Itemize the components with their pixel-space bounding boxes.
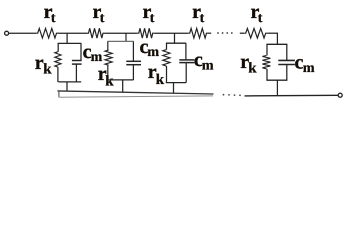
- svg-text:m: m: [202, 59, 214, 74]
- wire: [132, 65, 134, 80]
- svg-text:k: k: [43, 61, 52, 77]
- wire: [185, 63, 187, 83]
- label c_m of Cm3: [194, 49, 214, 74]
- label r_t of R1: [44, 1, 56, 26]
- ellipsis dots (bottom rail): [223, 94, 241, 96]
- capacitor Cm4 (c_m): [278, 60, 295, 64]
- wire: [75, 64, 77, 82]
- wire: [105, 32, 138, 34]
- svg-text:k: k: [105, 73, 114, 89]
- wire: [266, 43, 287, 45]
- wire: [267, 32, 278, 34]
- svg-text:k: k: [248, 61, 257, 77]
- resistor R5 (r_t): [244, 28, 267, 38]
- wire: [166, 42, 186, 44]
- wire: [107, 40, 133, 42]
- wire node E drop: [276, 33, 278, 44]
- label r_t of R3: [143, 1, 155, 26]
- wire: [266, 79, 287, 81]
- wire: [9, 32, 37, 34]
- wire: [208, 32, 211, 34]
- wire: [57, 67, 59, 82]
- wire: [58, 91, 60, 97]
- svg-text:m: m: [303, 61, 315, 76]
- svg-text:t: t: [200, 11, 205, 26]
- wire: [80, 43, 82, 60]
- output terminal T2: [338, 93, 342, 97]
- wire: [276, 80, 278, 96]
- svg-text:t: t: [258, 11, 263, 26]
- wire: [240, 32, 244, 34]
- label r_k of Rk3: [148, 61, 165, 88]
- svg-text:t: t: [100, 11, 105, 26]
- label c_m of Cm1: [83, 41, 103, 65]
- wire: [166, 82, 186, 84]
- wire: [245, 94, 339, 97]
- svg-text:t: t: [150, 11, 155, 26]
- wire: [266, 44, 268, 55]
- resistor Rk2 (r_k): [105, 50, 112, 65]
- wire: [286, 65, 288, 81]
- wire: [166, 66, 168, 83]
- wire lower return line: [59, 96, 213, 97]
- wire: [108, 79, 134, 81]
- wire: [66, 82, 68, 91]
- resistor Rk3 (r_k): [163, 50, 170, 67]
- wire: [173, 83, 175, 94]
- wire: [107, 65, 109, 80]
- wire: [154, 32, 188, 34]
- label r_t of R4: [192, 1, 205, 26]
- resistor Rk4 (r_k): [262, 56, 270, 69]
- capacitor Cm2 (c_m): [126, 61, 141, 64]
- label r_t of R2: [93, 1, 105, 26]
- wire: [166, 43, 168, 49]
- resistor R3 (r_t): [137, 28, 154, 38]
- resistor R2 (r_t): [87, 28, 105, 38]
- wire node C drop: [174, 33, 176, 43]
- wire: [185, 43, 187, 60]
- wire: [132, 41, 134, 61]
- label r_k of Rk1: [35, 52, 52, 77]
- input terminal T1: [5, 31, 9, 35]
- wire node B drop: [125, 33, 127, 42]
- label r_k of Rk4: [240, 51, 257, 76]
- svg-text:k: k: [156, 72, 165, 88]
- svg-text:t: t: [51, 11, 56, 26]
- wire: [107, 41, 109, 50]
- resistor R1 (r_t): [36, 28, 58, 38]
- wire: [58, 42, 82, 44]
- resistor R4 (r_t): [188, 28, 208, 38]
- label c_m of Cm2: [140, 36, 160, 60]
- label r_t of R5: [251, 1, 263, 26]
- wire bottom bus: [57, 91, 213, 94]
- ellipsis dots (top rail): [217, 32, 233, 34]
- wire node A drop: [66, 33, 68, 44]
- capacitor Cm1 (c_m): [72, 61, 82, 65]
- capacitor Cm3 (c_m): [179, 60, 194, 63]
- label r_k of Rk2: [98, 63, 115, 89]
- wire: [57, 43, 59, 51]
- wire: [58, 81, 81, 83]
- wire: [266, 69, 268, 81]
- svg-text:m: m: [147, 45, 159, 60]
- wire: [122, 80, 124, 92]
- resistor Rk1 (r_k): [55, 52, 61, 67]
- label c_m of Cm4: [295, 51, 315, 76]
- wire: [286, 44, 288, 60]
- wire: [58, 32, 87, 34]
